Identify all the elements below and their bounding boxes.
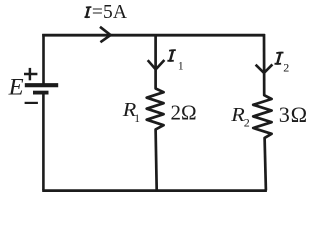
- svg-text:=5A: =5A: [92, 2, 127, 23]
- svg-text:2Ω: 2Ω: [171, 100, 197, 124]
- svg-text:R: R: [230, 105, 245, 126]
- svg-text:2: 2: [244, 116, 250, 130]
- svg-text:E: E: [8, 75, 24, 101]
- svg-text:2: 2: [283, 61, 289, 75]
- svg-text:1: 1: [134, 113, 140, 125]
- svg-text:3Ω: 3Ω: [279, 102, 308, 127]
- svg-text:1: 1: [178, 60, 184, 72]
